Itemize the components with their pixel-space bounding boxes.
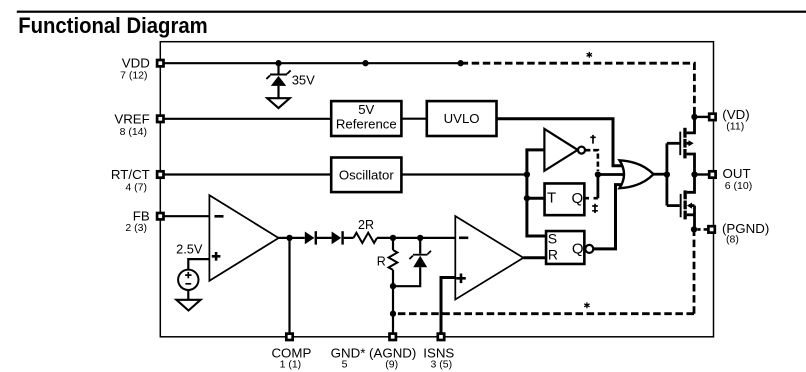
svg-text:RT/CT: RT/CT — [111, 167, 150, 182]
svg-text:Reference: Reference — [336, 116, 397, 131]
svg-text:4 (7): 4 (7) — [125, 181, 147, 193]
svg-text:S: S — [548, 231, 557, 247]
svg-text:Oscillator: Oscillator — [339, 168, 395, 183]
svg-text:1 (1): 1 (1) — [280, 359, 302, 371]
svg-text:5V: 5V — [358, 102, 374, 117]
svg-text:2R: 2R — [358, 218, 374, 232]
svg-text:3 (5): 3 (5) — [431, 359, 453, 371]
svg-text:Q: Q — [571, 190, 583, 207]
svg-text:R: R — [377, 254, 386, 268]
svg-text:5: 5 — [342, 359, 348, 371]
svg-text:(9): (9) — [385, 359, 398, 371]
svg-text:Functional Diagram: Functional Diagram — [18, 13, 208, 38]
svg-text:(8): (8) — [726, 233, 739, 245]
svg-text:VDD: VDD — [122, 56, 150, 71]
svg-text:OUT: OUT — [723, 166, 751, 181]
svg-text:8 (14): 8 (14) — [120, 126, 147, 138]
svg-text:2.5V: 2.5V — [176, 241, 203, 256]
svg-text:7 (12): 7 (12) — [120, 70, 147, 82]
svg-text:UVLO: UVLO — [444, 111, 480, 126]
svg-text:R: R — [548, 247, 558, 263]
svg-text:VREF: VREF — [114, 111, 149, 126]
svg-text:Q: Q — [572, 240, 584, 257]
svg-text:T: T — [547, 190, 556, 207]
svg-text:35V: 35V — [292, 72, 315, 87]
svg-text:6 (10): 6 (10) — [725, 180, 752, 192]
svg-text:(11): (11) — [726, 120, 744, 132]
svg-text:2 (3): 2 (3) — [125, 222, 147, 234]
